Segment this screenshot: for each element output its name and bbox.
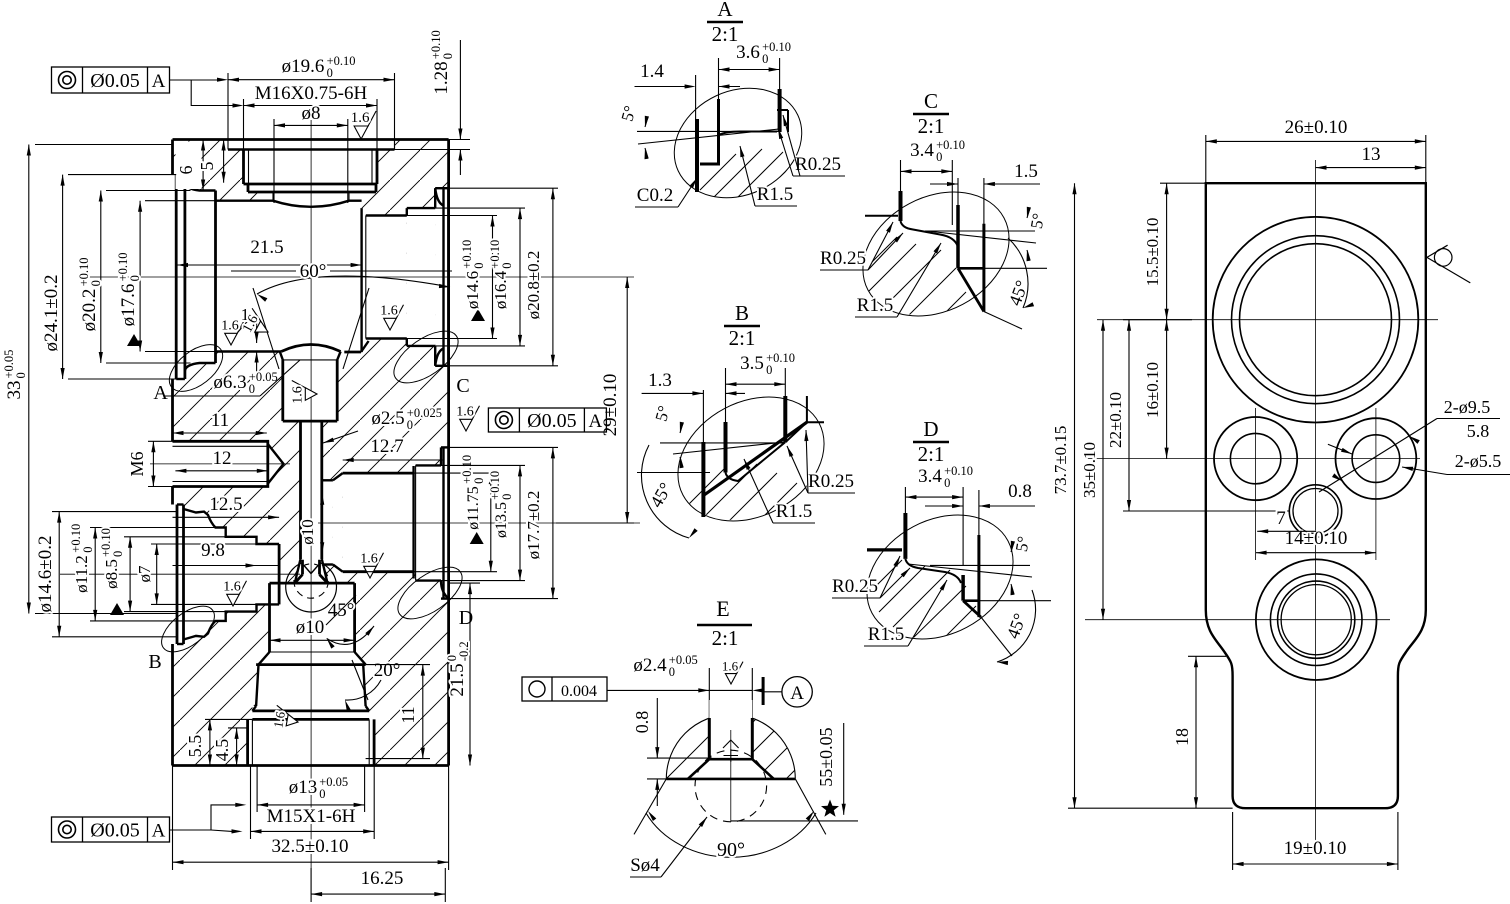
svg-text:1.6: 1.6 [351,110,370,126]
svg-text:90°: 90° [717,839,745,861]
svg-text:ø8: ø8 [302,103,321,124]
svg-text:0: 0 [14,372,28,378]
svg-text:2:1: 2:1 [918,442,945,466]
svg-text:22±0.10: 22±0.10 [1106,392,1125,448]
GD&T frame (top) with leader [52,67,244,108]
detail zone ellipse C [385,321,469,397]
svg-text:Ø0.05: Ø0.05 [90,70,139,92]
dim ø10 counterbore [270,617,355,642]
svg-text:ø20.2: ø20.2 [79,289,100,332]
svg-text:1.6: 1.6 [223,580,241,595]
right view dims [1051,117,1510,870]
svg-text:1.5: 1.5 [1014,161,1038,182]
svg-text:2:1: 2:1 [712,22,739,46]
svg-text:7: 7 [1276,508,1286,529]
detail view A (2:1) [618,0,845,218]
label ø6.3 with leader [165,360,300,396]
svg-text:2:1: 2:1 [729,326,756,350]
svg-text:ø24.1±0.2: ø24.1±0.2 [41,275,62,352]
svg-text:0: 0 [407,418,413,432]
detail view B (2:1) [637,301,855,558]
svg-text:60°: 60° [300,261,327,282]
svg-text:5: 5 [197,162,217,171]
svg-text:0: 0 [89,280,103,286]
svg-text:2:1: 2:1 [918,114,945,138]
dim 21.5 -0.2 right [445,583,480,765]
svg-text:0.8: 0.8 [632,711,652,734]
svg-text:R0.25: R0.25 [795,154,841,175]
svg-text:11: 11 [211,410,229,431]
svg-text:R0.25: R0.25 [808,471,854,492]
svg-text:1.6: 1.6 [456,405,474,420]
svg-text:0: 0 [319,787,325,801]
svg-text:C: C [924,89,938,113]
svg-text:0: 0 [669,665,675,679]
dims: 21.5 and 60 deg [177,237,452,302]
svg-text:M16X0.75-6H: M16X0.75-6H [255,83,368,104]
dim 1.28 spotface depth [395,30,471,175]
svg-text:ø6.3: ø6.3 [213,372,246,393]
dims: bottom (ø13, M15X1-6H, 32.5, 16.25) [173,766,449,903]
svg-text:0: 0 [500,494,514,500]
svg-text:0: 0 [472,262,486,268]
dim 12.7 [343,436,444,462]
svg-text:3.6: 3.6 [736,42,760,63]
dims 5.5 and 4.5 [185,719,252,765]
main view contours [173,140,449,766]
detail view E (2:1) [522,596,880,877]
bore cavities (white) [171,140,449,766]
svg-text:35±0.10: 35±0.10 [1080,442,1099,498]
svg-text:ø20.8±0.2: ø20.8±0.2 [524,251,543,320]
svg-text:-0.2: -0.2 [457,641,471,661]
detail zone ellipse A [153,336,231,404]
svg-text:ø13: ø13 [289,777,318,798]
detail view C (2:1) [820,89,1048,350]
svg-text:E: E [716,596,729,621]
svg-text:ø2.4: ø2.4 [633,655,667,676]
svg-text:5°: 5° [1027,212,1048,230]
svg-text:0: 0 [249,382,255,396]
svg-text:3.4: 3.4 [918,466,942,487]
svg-text:1.28: 1.28 [431,61,452,94]
svg-text:13: 13 [1362,144,1381,165]
svg-text:20°: 20° [374,660,401,681]
svg-text:ø14.6: ø14.6 [463,271,482,309]
svg-text:R1.5: R1.5 [868,624,904,645]
svg-text:0: 0 [111,551,125,557]
svg-text:19±0.10: 19±0.10 [1284,838,1347,859]
svg-text:2-ø5.5: 2-ø5.5 [1455,451,1502,471]
svg-text:1.6: 1.6 [291,386,306,404]
GD&T frame (bottom) with leader [52,803,247,842]
dims: right side chains [343,188,634,598]
GD&T frame (middle) with finish [456,405,606,432]
dims: M6, 11, 12 [127,410,268,487]
right view centerlines [1085,160,1438,845]
dims: lower-left bore chain [35,494,279,637]
surface finish 1.6 top [351,110,376,139]
svg-text:A: A [152,71,166,92]
detail view D (2:1) [832,417,1051,665]
svg-text:1.6: 1.6 [722,658,739,673]
svg-text:16±0.10: 16±0.10 [1143,362,1162,418]
svg-text:2:1: 2:1 [712,626,739,650]
svg-text:0.004: 0.004 [561,683,597,700]
svg-text:A: A [152,821,166,842]
svg-text:M6: M6 [127,451,147,476]
svg-text:R1.5: R1.5 [857,295,893,316]
svg-text:ø8.5: ø8.5 [102,559,121,589]
svg-text:0: 0 [936,150,942,164]
svg-text:0: 0 [128,275,142,281]
svg-text:1.4: 1.4 [640,61,664,82]
svg-text:R0.25: R0.25 [832,576,878,597]
svg-text:3.5: 3.5 [740,353,764,374]
svg-text:5.5: 5.5 [185,735,205,758]
svg-text:ø17.7±0.2: ø17.7±0.2 [524,491,543,560]
svg-text:1.6: 1.6 [380,304,398,319]
svg-text:D: D [923,417,938,441]
svg-text:B: B [148,651,161,673]
svg-text:2-ø9.5: 2-ø9.5 [1444,397,1491,417]
svg-text:ø10: ø10 [296,617,325,638]
svg-text:A: A [717,0,733,21]
dim 11 (taper depth) [366,665,430,759]
svg-text:ø10: ø10 [298,519,317,545]
svg-text:0: 0 [81,546,95,552]
svg-text:0: 0 [766,363,772,377]
surface finish symbol (right view) [1427,245,1470,283]
svg-text:0: 0 [327,66,333,80]
main view centerlines [60,120,640,894]
svg-text:R0.25: R0.25 [820,248,866,269]
dim ø10 channel [298,494,324,554]
svg-text:ø2.5: ø2.5 [371,408,404,429]
svg-text:26±0.10: 26±0.10 [1285,117,1348,138]
svg-text:ø13.5: ø13.5 [493,502,510,538]
svg-text:21.5: 21.5 [447,663,468,696]
svg-text:29±0.10: 29±0.10 [600,374,621,437]
svg-text:11: 11 [398,706,418,723]
label ø2.5 with leader [323,406,442,443]
right view circles [1213,217,1419,680]
svg-text:16.25: 16.25 [361,868,404,889]
svg-text:1.6: 1.6 [270,710,288,729]
main section view - hatched body [173,140,449,766]
svg-text:5.8: 5.8 [1467,421,1490,441]
svg-text:ø19.6: ø19.6 [282,56,325,77]
dims: left chain (33, ø24.1, ø20.2, ø17.6) [2,145,216,614]
svg-text:6: 6 [176,166,196,175]
svg-text:ø14.6±0.2: ø14.6±0.2 [35,536,56,613]
svg-text:0: 0 [944,476,950,490]
svg-text:3.4: 3.4 [910,140,934,161]
svg-text:5°: 5° [1012,535,1033,553]
svg-text:0.8: 0.8 [1008,481,1032,502]
svg-text:32.5±0.10: 32.5±0.10 [272,836,349,857]
svg-text:R1.5: R1.5 [776,501,812,522]
svg-text:Ø0.05: Ø0.05 [90,820,139,842]
svg-text:33: 33 [4,381,25,400]
svg-text:Sø4: Sø4 [630,855,660,876]
label 20 deg taper [345,660,400,711]
svg-text:9.8: 9.8 [201,540,225,561]
svg-text:M15X1-6H: M15X1-6H [267,806,356,827]
svg-text:55±0.05: 55±0.05 [816,727,836,786]
svg-text:A: A [790,683,804,704]
surface finish marks mid view [221,304,403,731]
svg-text:ø11.2: ø11.2 [72,555,91,593]
svg-text:15.5±0.10: 15.5±0.10 [1143,218,1162,287]
svg-text:0: 0 [441,53,455,59]
svg-text:1.3: 1.3 [648,370,672,391]
svg-text:21.5: 21.5 [250,237,283,258]
svg-text:12: 12 [213,448,232,469]
dims: top of main view [228,54,395,203]
svg-text:18: 18 [1172,728,1192,746]
right view outline [1206,183,1426,808]
label 45 deg at counterbore [326,595,374,649]
detail zone ellipse D [389,557,473,629]
svg-text:ø16.4: ø16.4 [491,270,510,309]
svg-text:0: 0 [762,52,768,66]
svg-text:1.6: 1.6 [360,552,378,567]
svg-text:A: A [589,411,603,432]
svg-text:12.5: 12.5 [209,494,242,515]
svg-text:0: 0 [472,478,486,484]
svg-text:73.7±0.15: 73.7±0.15 [1051,426,1070,495]
svg-text:4.5: 4.5 [212,739,232,762]
svg-text:A: A [153,382,168,404]
svg-text:C: C [456,375,469,397]
svg-text:ø7: ø7 [135,565,154,583]
svg-text:R1.5: R1.5 [757,184,793,205]
svg-text:0: 0 [500,262,514,268]
svg-text:D: D [459,607,473,629]
svg-text:Ø0.05: Ø0.05 [527,410,576,432]
svg-text:C0.2: C0.2 [637,185,673,206]
dims 6 and 5 (top-left) [176,140,226,191]
svg-text:12.7: 12.7 [370,436,403,457]
detail zone ellipse B [148,597,222,673]
svg-text:ø11.75: ø11.75 [465,486,482,529]
svg-text:1.6: 1.6 [221,319,239,334]
svg-text:B: B [735,301,749,325]
svg-text:ø17.6: ø17.6 [118,284,139,327]
